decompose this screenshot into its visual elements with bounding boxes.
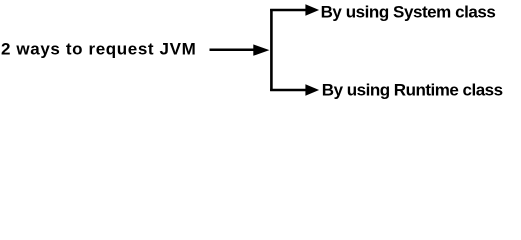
svg-text:By using System class: By using System class [321, 3, 496, 22]
wire: main horizontal arrow shaft from root label to branch line [210, 48, 256, 51]
wire: top branch horizontal shaft [270, 9, 306, 11]
svg-text:By using Runtime class: By using Runtime class [322, 81, 503, 100]
svg-text:2 ways to request JVM: 2 ways to request JVM [1, 39, 196, 58]
wire: vertical branch line [270, 9, 273, 91]
node: bottom branch arrowhead [305, 84, 319, 95]
node: top branch arrowhead [305, 4, 319, 15]
wire: bottom branch horizontal shaft [270, 89, 306, 91]
node: main arrowhead [253, 44, 269, 55]
